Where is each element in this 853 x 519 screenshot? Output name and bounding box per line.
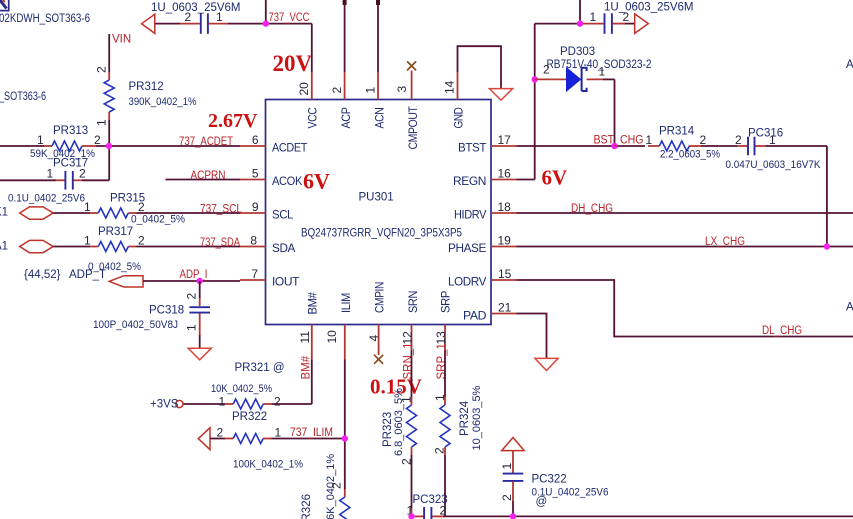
svg-text:PD303: PD303 <box>560 46 595 58</box>
svg-text:19: 19 <box>498 234 512 248</box>
wire REGN riser to bootstrap rail <box>517 24 604 180</box>
wire VIN vertical <box>108 34 110 180</box>
svg-text:IOUT: IOUT <box>272 275 300 289</box>
svg-text:2: 2 <box>440 504 447 518</box>
wire DL_CHG (LODRV) <box>517 280 853 337</box>
svg-text:737_VCC: 737_VCC <box>269 12 310 24</box>
svg-text:7: 7 <box>251 267 258 281</box>
pin 9 SCL stub <box>240 200 266 214</box>
svg-text:21: 21 <box>498 301 512 315</box>
net label BM# (vertical) <box>301 355 313 379</box>
junction dot 737_ILIM <box>342 435 348 441</box>
net label fragment A (right edge top) <box>846 59 853 71</box>
svg-text:1: 1 <box>47 167 54 181</box>
svg-text:{44,52}: {44,52} <box>24 269 61 281</box>
pin 1 ACN stub <box>364 72 379 100</box>
svg-text:737_SCL: 737_SCL <box>200 204 243 216</box>
wire PAD to ground <box>517 314 547 359</box>
pin 21 PAD stub <box>491 301 517 315</box>
pin 13 SRP stub <box>434 325 448 351</box>
junction dot 737_VCC <box>263 20 269 26</box>
svg-text:1: 1 <box>769 133 776 147</box>
node A1 off-page hexagon connector <box>0 240 53 252</box>
capacitor C 1U_0603_25V6M (top right) <box>590 2 694 34</box>
pin 20 VCC stub <box>297 72 312 100</box>
capacitor C 1U_0603_25V6M (top left) <box>151 2 266 34</box>
pin 14 GND stub <box>443 72 458 100</box>
svg-text:737_ACDET: 737_ACDET <box>179 136 233 148</box>
svg-text:10K_0402_5%: 10K_0402_5% <box>211 383 272 395</box>
svg-text:ACP: ACP <box>339 107 353 128</box>
svg-text:ADP_T: ADP_T <box>69 269 106 281</box>
resistor R PR312 390K <box>95 66 197 126</box>
svg-text:5: 5 <box>252 167 259 181</box>
wire BTST net <box>517 146 827 247</box>
svg-text:REGN: REGN <box>453 174 486 188</box>
wire IOUT row <box>143 280 240 282</box>
node arrow connector (right, on 1U cap) <box>635 14 649 33</box>
pin 19 PHASE stub <box>491 234 517 248</box>
svg-text:11: 11 <box>298 331 312 344</box>
junction dot ACDET/VIN <box>106 143 112 149</box>
wire ILIM drop <box>344 360 346 498</box>
svg-text:BQ24737RGRR_VQFN20_3P5X3P5: BQ24737RGRR_VQFN20_3P5X3P5 <box>301 228 462 240</box>
node K1 off-page hexagon connector <box>0 207 53 220</box>
svg-text:13: 13 <box>434 331 448 345</box>
resistor R PR322 100K <box>217 411 304 471</box>
net label LX_CHG <box>705 236 745 248</box>
svg-text:1: 1 <box>219 395 226 409</box>
svg-text:1: 1 <box>500 463 514 470</box>
net label 2.67V <box>208 110 258 132</box>
svg-text:2: 2 <box>79 167 86 181</box>
junction dot BST_CHG <box>611 143 617 149</box>
pin 4 CMPIN stub + no-connect X <box>367 325 383 364</box>
pin 18 HIDRV stub <box>491 200 517 214</box>
op-amp U1 PU301 BQ24737 charger IC body <box>266 100 492 325</box>
net label 737_ILIM <box>290 427 333 439</box>
svg-text:BM#: BM# <box>301 355 313 379</box>
svg-text:17: 17 <box>498 133 512 147</box>
net label ACPRN <box>191 170 226 182</box>
capacitor C PC323 <box>407 494 448 519</box>
svg-text:0.047U_0603_16V7K: 0.047U_0603_16V7K <box>726 159 822 171</box>
ground symbol (PAD) <box>535 358 558 370</box>
part text 02KDWH_SOT363-6 (clipped left) <box>0 13 90 25</box>
svg-text:ADP_I: ADP_I <box>180 269 208 281</box>
svg-text:02KDWH_SOT363-6: 02KDWH_SOT363-6 <box>0 13 90 25</box>
svg-text:PR317: PR317 <box>98 226 133 238</box>
resistor R R326 56K (clipped at bottom) <box>301 454 350 519</box>
svg-text:PR314: PR314 <box>659 126 695 138</box>
net label ADP_I <box>180 269 208 281</box>
svg-text:BM#: BM# <box>306 292 320 315</box>
junction dot ADP_I <box>197 278 203 284</box>
net label DH_CHG <box>571 203 613 215</box>
pin 15 LODRV stub <box>491 267 517 281</box>
svg-text:LODRV: LODRV <box>448 275 486 289</box>
svg-text:4: 4 <box>367 335 381 342</box>
svg-text:HIDRV: HIDRV <box>454 208 486 222</box>
svg-text:SRP: SRP <box>439 291 453 313</box>
wire SCL row <box>53 212 240 214</box>
svg-text:737_SDA: 737_SDA <box>200 237 240 249</box>
svg-text:2: 2 <box>330 87 344 94</box>
svg-text:1: 1 <box>185 324 199 331</box>
junction dot PC322 <box>510 513 516 519</box>
svg-text:CMPOUT: CMPOUT <box>406 106 420 150</box>
svg-text:ACOK: ACOK <box>272 174 302 188</box>
node arrow connector (left, on 1U cap) <box>142 14 155 33</box>
resistor R PR324 10 <box>433 385 484 454</box>
diode D PD303 RB751V-40 schottky <box>535 46 652 146</box>
svg-text:2: 2 <box>217 426 224 440</box>
svg-text:2: 2 <box>330 482 344 489</box>
wire ACP from top edge <box>344 0 346 72</box>
svg-text:CMPIN: CMPIN <box>373 282 387 313</box>
wire ACN from top edge <box>377 0 379 72</box>
ground symbol below PC318 <box>188 348 211 360</box>
svg-text:2.67V: 2.67V <box>208 110 258 132</box>
svg-text:15: 15 <box>498 267 512 281</box>
wire SRP drop <box>444 350 446 516</box>
svg-text:SRN: SRN <box>406 291 420 313</box>
pin 7 IOUT stub <box>240 267 266 281</box>
pin 8 SDA stub <box>240 234 266 248</box>
svg-text:2: 2 <box>735 133 742 147</box>
net label 737_VCC <box>269 12 310 24</box>
resistor R PR315 0 ohm <box>84 193 185 226</box>
pin 17 BTST stub <box>491 133 517 147</box>
part text _SOT363-6 (clipped left) <box>0 91 46 103</box>
svg-text:2: 2 <box>138 234 145 248</box>
svg-text:PC316: PC316 <box>748 128 783 140</box>
net label 6V (REGN) <box>542 166 568 190</box>
pin 12 SRN stub <box>401 325 415 351</box>
svg-text:SDA: SDA <box>272 241 295 255</box>
wire 737_ILIM row <box>210 438 345 440</box>
svg-text:PU301: PU301 <box>359 192 394 204</box>
net label 6V (ACOK) <box>303 169 330 194</box>
wire SDA row <box>53 246 240 248</box>
svg-text:+3VS: +3VS <box>150 399 179 411</box>
node arrow connector (left, PR322) <box>198 428 210 450</box>
svg-text:18: 18 <box>498 200 512 214</box>
svg-text:1: 1 <box>646 133 653 147</box>
wire LX_CHG (PHASE) <box>517 246 853 248</box>
pin 2 ACP stub <box>330 72 345 100</box>
wire BM# down to PR321 <box>183 360 312 405</box>
svg-text:PR313: PR313 <box>53 125 88 137</box>
corner icon (top-left) <box>0 0 9 11</box>
net label 737_SCL <box>200 204 243 216</box>
svg-text:1: 1 <box>216 10 223 24</box>
svg-text:1: 1 <box>37 133 44 147</box>
svg-text:@: @ <box>536 496 548 508</box>
svg-text:1U_0603_25V6M: 1U_0603_25V6M <box>604 2 694 14</box>
svg-text:10: 10 <box>325 330 339 344</box>
net label 737_ACDET <box>179 136 233 148</box>
svg-text:20: 20 <box>297 82 311 96</box>
svg-text:2: 2 <box>400 458 414 465</box>
svg-text:DH_CHG: DH_CHG <box>571 203 613 215</box>
junction dot PC323 pin1 <box>408 513 414 519</box>
svg-text:A: A <box>846 302 853 314</box>
net label 20V <box>273 51 313 76</box>
capacitor C PC317 0.1U <box>0 158 109 205</box>
svg-text:A1: A1 <box>0 241 8 253</box>
svg-text:2: 2 <box>185 10 192 24</box>
svg-text:2: 2 <box>274 395 281 409</box>
node +3VS off-page circle <box>150 399 183 411</box>
svg-text:1: 1 <box>400 396 414 403</box>
pin 3 CMPOUT stub + no-connect X <box>395 61 416 99</box>
wire SRN drop <box>411 350 413 516</box>
svg-text:BTST: BTST <box>458 141 487 155</box>
svg-text:2: 2 <box>500 494 514 501</box>
svg-text:9: 9 <box>252 200 259 214</box>
svg-text:390K_0402_1%: 390K_0402_1% <box>129 96 197 108</box>
svg-text:A: A <box>846 59 853 71</box>
wire bottom rail <box>412 515 853 517</box>
svg-text:1: 1 <box>590 10 597 24</box>
wire GND pin to ground <box>458 46 502 88</box>
svg-text:1: 1 <box>433 394 447 401</box>
svg-text:_SOT363-6: _SOT363-6 <box>0 91 46 103</box>
wire 737_VCC to pin 20 <box>266 0 312 72</box>
ground symbol (GND pin 14) <box>489 89 512 101</box>
capacitor C PC318 100P <box>93 281 210 348</box>
svg-text:1: 1 <box>364 87 378 94</box>
capacitor C PC322 0.1U <box>500 451 609 517</box>
svg-text:1: 1 <box>599 65 606 79</box>
wire ACDET net from left edge <box>0 145 240 147</box>
junction dot bootstrap rail <box>577 20 583 26</box>
wire from top edge to bootstrap rail <box>579 0 581 24</box>
svg-text:2: 2 <box>700 133 707 147</box>
net label SRN_1 (vertical) <box>403 342 415 379</box>
resistor R PR313 59K <box>30 125 101 160</box>
svg-text:DL_CHG: DL_CHG <box>762 325 802 337</box>
svg-text:PR321 @: PR321 @ <box>235 362 285 374</box>
net label VIN <box>112 34 131 46</box>
svg-text:100K_0402_1%: 100K_0402_1% <box>233 459 303 471</box>
svg-text:PC322: PC322 <box>532 474 567 486</box>
net label DL_CHG <box>762 325 802 337</box>
svg-text:R326: R326 <box>301 494 313 519</box>
svg-text:1: 1 <box>84 234 91 248</box>
junction dot LX_CHG <box>824 243 830 249</box>
svg-text:BST_CHG: BST_CHG <box>594 135 644 147</box>
power symbol arrow above PC322 <box>502 438 525 451</box>
svg-text:14: 14 <box>443 80 457 94</box>
svg-text:100P_0402_50V8J: 100P_0402_50V8J <box>93 319 178 331</box>
svg-text:PAD: PAD <box>463 309 487 323</box>
svg-text:8: 8 <box>250 234 257 248</box>
svg-text:2: 2 <box>543 63 550 77</box>
svg-text:2: 2 <box>95 66 109 73</box>
wire DH_CHG (HIDRV) <box>517 212 853 214</box>
svg-text:2: 2 <box>94 133 101 147</box>
wire ACPRN <box>166 179 241 181</box>
svg-text:PR324: PR324 <box>459 400 471 436</box>
svg-text:ACN: ACN <box>373 108 387 129</box>
capacitor C PC316 0.047U <box>726 128 822 172</box>
svg-text:ACDET: ACDET <box>272 141 308 155</box>
svg-text:LX_CHG: LX_CHG <box>705 236 745 248</box>
pin 5 ACOK stub <box>240 167 266 181</box>
svg-text:3: 3 <box>395 86 409 93</box>
svg-text:ILIM: ILIM <box>339 293 353 313</box>
svg-text:16: 16 <box>498 167 512 181</box>
pin 16 REGN stub <box>491 167 517 181</box>
svg-text:VIN: VIN <box>112 34 131 46</box>
resistor R PR323 6.8 <box>382 388 417 465</box>
svg-text:PR312: PR312 <box>129 81 164 93</box>
svg-text:1U_0603_25V6M: 1U_0603_25V6M <box>151 2 241 14</box>
svg-text:PC318: PC318 <box>149 305 184 317</box>
svg-text:10_0603_5%: 10_0603_5% <box>471 385 483 450</box>
junction dot REGN/diode anode <box>532 76 538 82</box>
svg-text:6V: 6V <box>303 169 330 194</box>
svg-text:0_0402_5%: 0_0402_5% <box>131 214 185 226</box>
resistor R PR314 2.2 <box>646 126 721 161</box>
svg-text:2: 2 <box>138 200 145 214</box>
svg-text:PHASE: PHASE <box>448 241 486 255</box>
svg-text:1: 1 <box>275 426 282 440</box>
svg-text:1: 1 <box>95 119 109 126</box>
pin 6 ACDET stub <box>240 133 266 147</box>
pin 10 ILIM stub <box>325 325 345 360</box>
svg-text:20V: 20V <box>273 51 313 76</box>
svg-text:GND: GND <box>452 107 466 129</box>
svg-text:2.2_0603_5%: 2.2_0603_5% <box>660 149 720 161</box>
svg-text:1: 1 <box>84 200 91 214</box>
svg-text:ACPRN: ACPRN <box>191 170 226 182</box>
node ADP_T tag connector <box>24 269 143 287</box>
svg-text:0.1U_0402_25V6: 0.1U_0402_25V6 <box>8 193 85 205</box>
resistor R PR321 10K <box>211 362 285 409</box>
net label 737_SDA <box>200 237 240 249</box>
pin 11 BM# stub <box>298 325 312 360</box>
net label BST_CHG <box>594 135 644 147</box>
svg-text:2: 2 <box>433 447 447 454</box>
resistor R PR317 0 ohm <box>84 226 145 273</box>
svg-text:SCL: SCL <box>272 208 294 222</box>
svg-text:K1: K1 <box>0 207 8 219</box>
svg-text:6V: 6V <box>542 166 568 190</box>
svg-text:VCC: VCC <box>306 107 320 129</box>
net label 0.15V <box>370 375 422 399</box>
svg-text:SRP_1: SRP_1 <box>436 343 448 379</box>
net label SRP_1 (vertical) <box>436 343 448 379</box>
svg-text:737_ILIM: 737_ILIM <box>290 427 333 439</box>
svg-text:PR322: PR322 <box>232 411 267 423</box>
svg-text:2: 2 <box>623 10 630 24</box>
svg-text:2: 2 <box>185 293 199 300</box>
svg-text:6: 6 <box>252 133 259 147</box>
net label fragment A (right edge mid) <box>846 302 853 314</box>
